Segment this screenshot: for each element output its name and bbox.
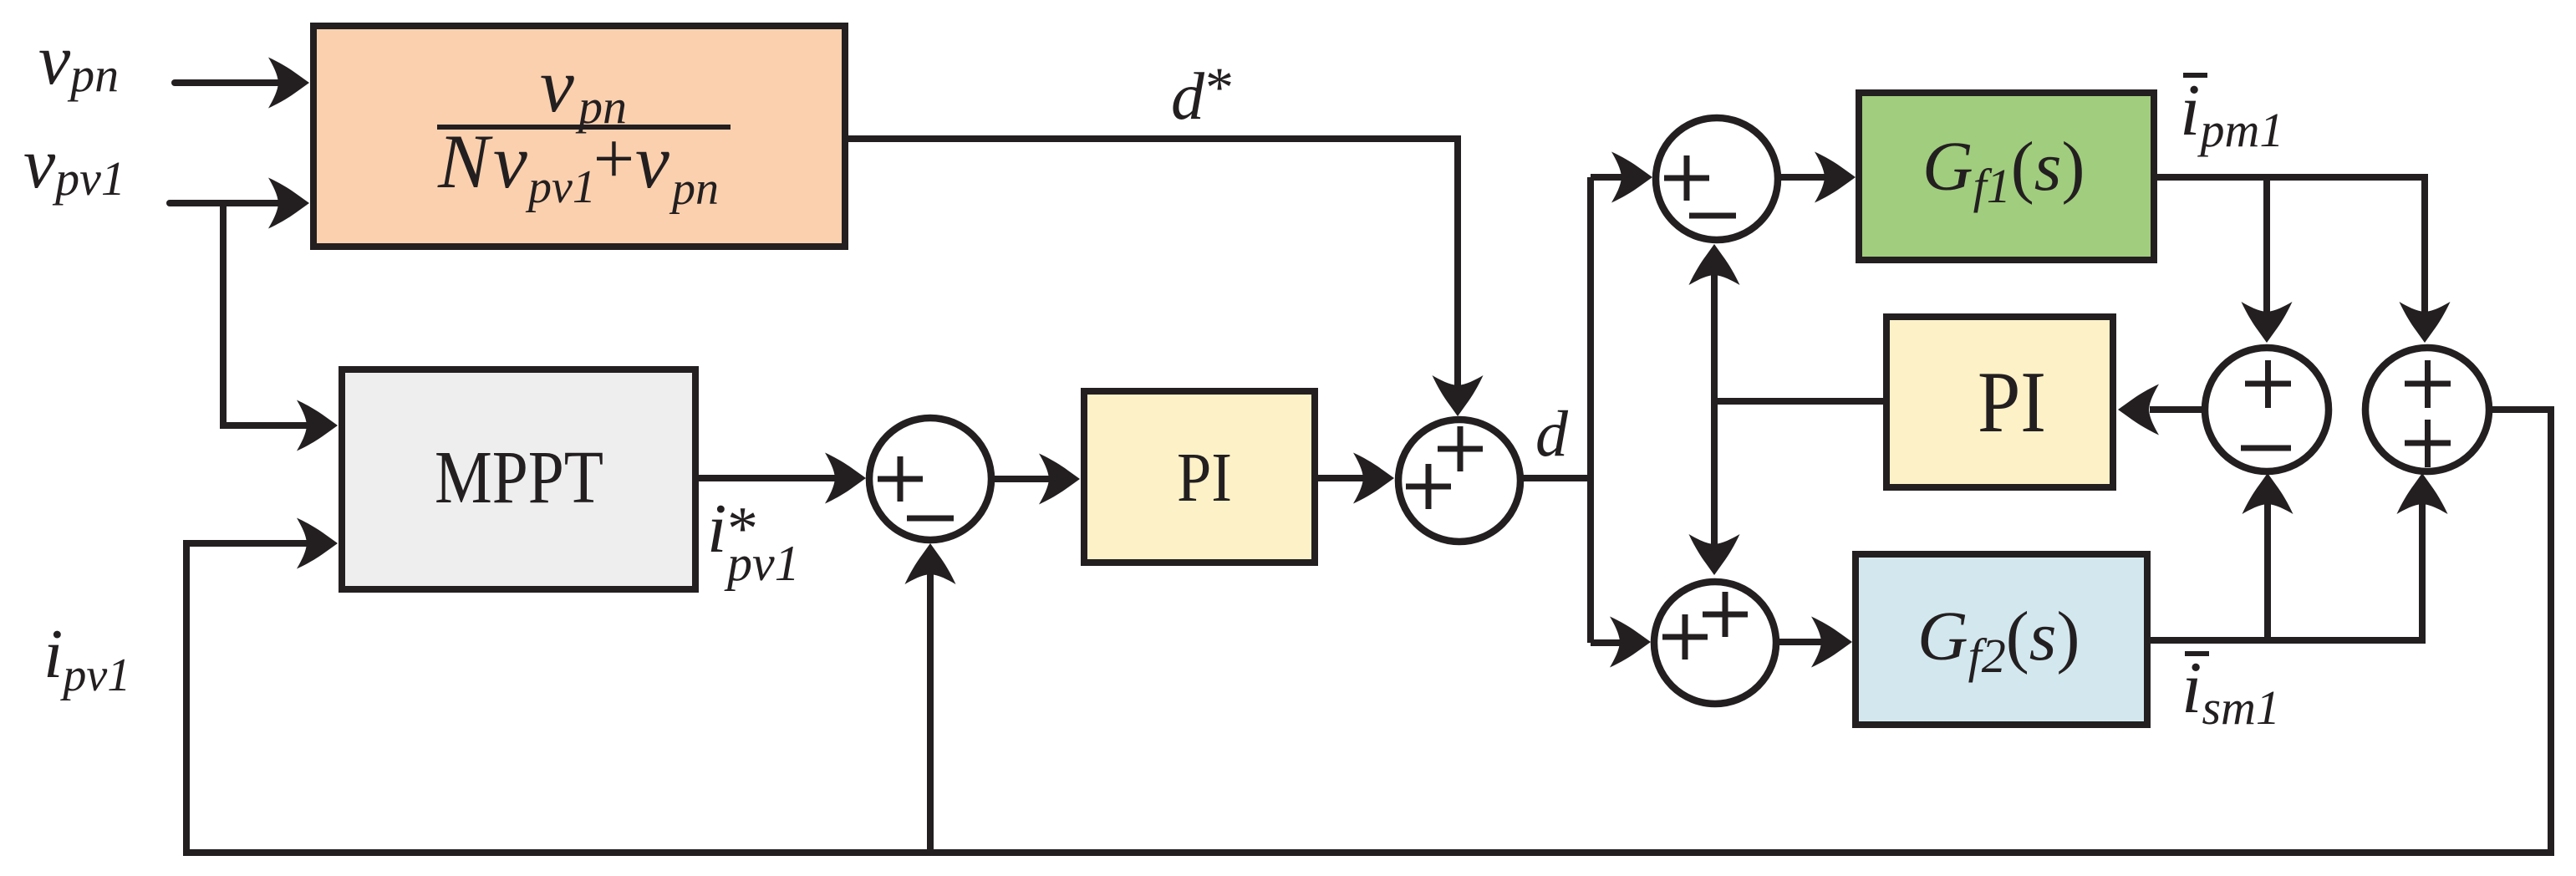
svg-text:ipv1: ipv1: [43, 615, 130, 701]
svg-text:d: d: [1535, 397, 1569, 470]
svg-text:MPPT: MPPT: [435, 436, 603, 519]
svg-text:PI: PI: [1177, 439, 1232, 517]
svg-text:*: *: [1205, 55, 1234, 119]
svg-text:ism1: ism1: [2181, 648, 2280, 735]
svg-text:d: d: [1171, 60, 1205, 134]
svg-text:PI: PI: [1978, 353, 2046, 451]
svg-text:ipm1: ipm1: [2180, 70, 2283, 157]
svg-text:vpn: vpn: [38, 19, 119, 102]
svg-text:pv1: pv1: [724, 536, 800, 591]
svg-text:vpv1: vpv1: [23, 123, 125, 206]
svg-text:i: i: [707, 490, 726, 568]
